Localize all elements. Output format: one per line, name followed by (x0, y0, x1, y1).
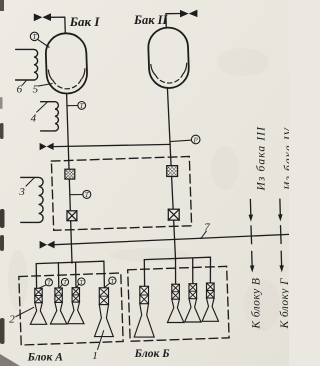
valve V1 (fill-and-drain valve, tank I) (34, 13, 51, 21)
valve V2 (fill-and-drain valve, tank II) (180, 10, 197, 18)
label 6 (22, 81, 26, 86)
svg-text:Блок Б: Блок Б (134, 348, 170, 360)
manifold block B (144, 257, 210, 286)
wire: feed from tank IV (upper arrow) (279, 199, 281, 215)
engine A1 (small) (30, 288, 46, 324)
sensor T4 (engine A1) (45, 279, 52, 287)
wire: feed from tank IV crossing line 7 (280, 226, 283, 244)
dashed box: pneumo-valve unit (51, 156, 191, 230)
dashed box: Блок Б (128, 266, 229, 341)
wire: pressurization cross line (valve row 1) (54, 144, 171, 146)
label 1 leader (98, 331, 104, 350)
coil 6 (heat exchanger) (16, 49, 38, 80)
wire: feed from tank III crossing line 7 (250, 226, 253, 244)
wire: line 7 (cross-feed manifold) (55, 234, 289, 244)
engine B1 (main) (134, 286, 154, 337)
engine B2 (small) (167, 284, 183, 322)
pyro valve X2 (right, crossed square) (168, 209, 179, 220)
label 2 leader (16, 307, 34, 316)
sensor P connector (170, 140, 191, 142)
engine A4 (main, ref 1) (95, 288, 114, 337)
sensor T5 (engine A2) leader (60, 285, 63, 288)
manifold block A (36, 261, 104, 288)
sensor T3 (temperature, valve unit) (83, 190, 91, 199)
sensor T3 connector (70, 194, 83, 196)
svg-text:Из бака IV: Из бака IV (283, 126, 289, 191)
svg-text:К блоку В: К блоку В (250, 278, 262, 330)
sensor T2 (temperature, tank I outlet) (78, 102, 86, 111)
valve V4 (isolation valve, line 7) (40, 241, 55, 249)
sensor T2 connector (67, 105, 78, 107)
svg-text:К блоку Г: К блоку Г (279, 278, 289, 329)
tank Бак II (148, 27, 190, 89)
label 7 leader (201, 231, 207, 238)
sensor T5 (engine A2) (61, 278, 68, 286)
wire: riser engine 2B (175, 259, 177, 284)
wire: right main feed pipe (tank II to manifold B) (167, 88, 175, 259)
svg-text:Блок А: Блок А (27, 352, 64, 364)
wire: to block V (lower arrow) (251, 252, 253, 267)
sensor P (pressure, tank II outlet) (191, 135, 200, 144)
tank Бак I (45, 33, 88, 95)
sensor T7 (engine A4) leader (105, 283, 110, 287)
wire: riser engine 3A (75, 262, 77, 288)
svg-text:5: 5 (33, 84, 39, 96)
svg-text:7: 7 (204, 222, 210, 234)
sensor T1 (temperature, tank I dome) (30, 32, 38, 41)
sensor T6 (engine A3) (78, 278, 85, 286)
wire: riser engine 2A (57, 263, 59, 288)
engine B3 (small) (185, 284, 201, 322)
svg-text:Бак I: Бак I (69, 14, 101, 29)
filter F2 (right) (167, 166, 178, 177)
sensor T6 (engine A3) leader (77, 284, 79, 287)
wire: feed from tank III (upper arrow) (249, 200, 251, 216)
coil 3 (heat exchanger) (21, 177, 43, 222)
engine A3 (small) (68, 288, 84, 324)
svg-text:Бак II: Бак II (133, 13, 169, 27)
svg-text:6: 6 (17, 83, 23, 95)
wire from tank II top to valve V2 (166, 14, 180, 28)
svg-text:Р: Р (193, 136, 199, 144)
svg-text:3: 3 (18, 186, 25, 198)
scan artifacts along left edge (0, 0, 20, 366)
dashed box: Блок А (19, 273, 123, 345)
svg-text:1: 1 (92, 350, 98, 362)
wire: riser engine 3B (192, 258, 194, 284)
filter F1 (left) (65, 169, 75, 179)
svg-text:Из бака III: Из бака III (256, 126, 268, 192)
label 4 leader (37, 102, 47, 112)
svg-text:4: 4 (31, 113, 37, 125)
wire: left main feed pipe (tank I to manifold A) (67, 94, 72, 263)
sensor T7 (engine A4) (109, 277, 116, 285)
sensor T4 (engine A1) leader (39, 285, 46, 288)
coil 4 (heat exchanger) (41, 102, 59, 131)
pyro valve X1 (left, crossed square) (67, 211, 77, 221)
sensor T1 leader (38, 39, 49, 47)
svg-text:2: 2 (9, 313, 15, 325)
valve V3 (isolation valve, cross line) (40, 143, 54, 151)
engine A2 (small) (50, 288, 66, 324)
engine B4 (small) (202, 283, 218, 321)
label 3 leader (26, 178, 34, 186)
wire from valve V1 to tank I top (51, 17, 66, 33)
label 5 leader (38, 84, 52, 86)
wire: to block G (lower arrow) (280, 251, 282, 265)
faint page ghosting / paper texture (8, 48, 280, 331)
